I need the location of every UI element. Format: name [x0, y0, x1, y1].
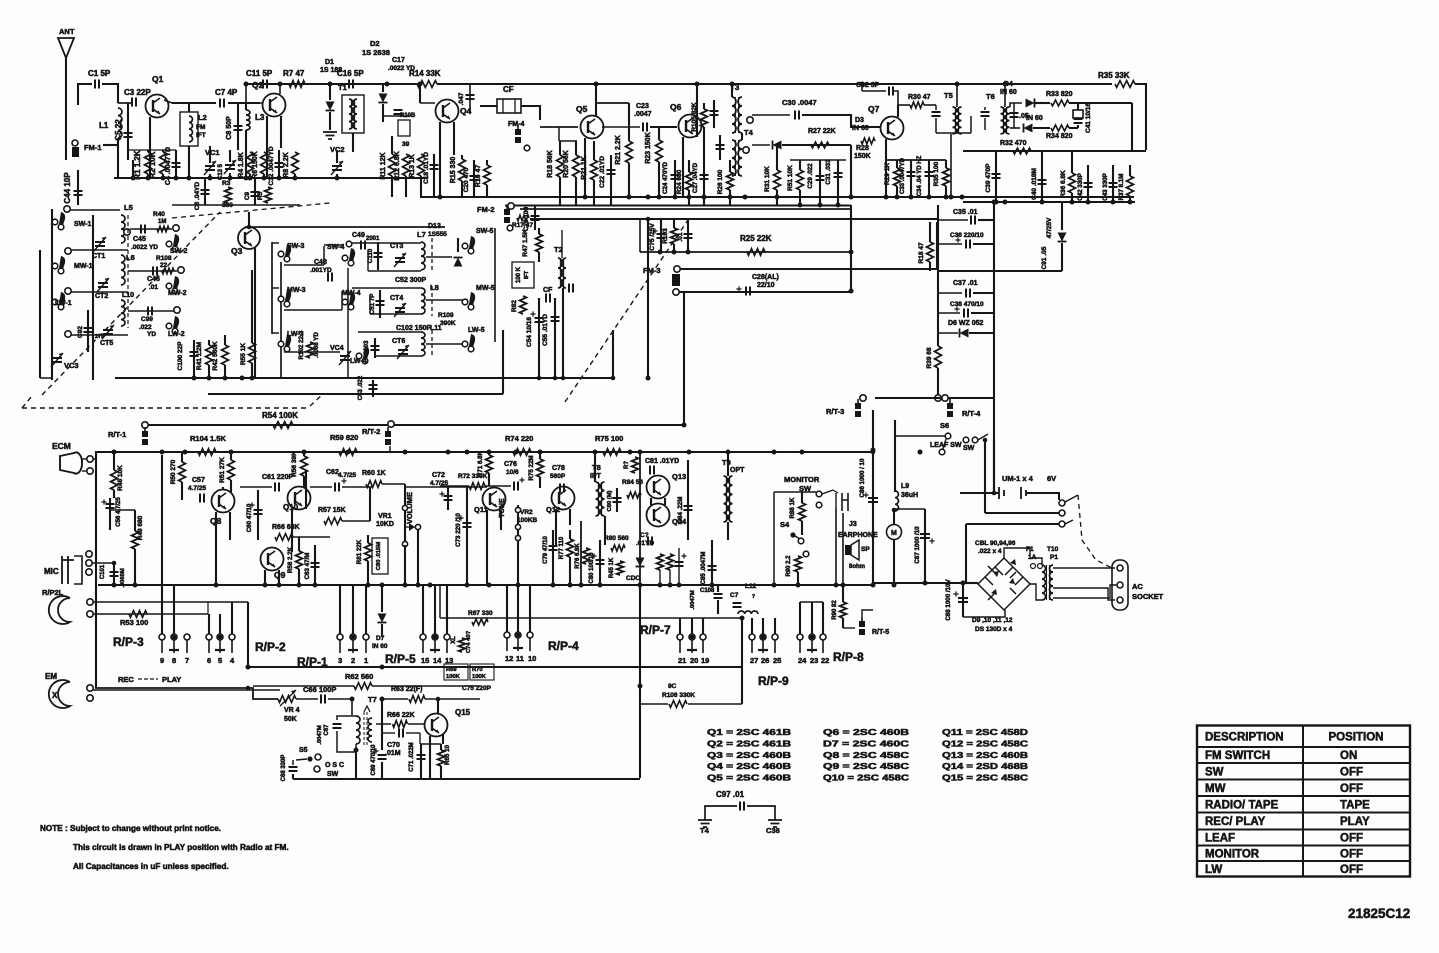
svg-text:C70: C70	[387, 742, 400, 749]
svg-text:C34 .04 YD HZ: C34 .04 YD HZ	[917, 155, 923, 196]
svg-text:22: 22	[160, 262, 168, 269]
capacitor C33 .0047YD	[910, 160, 912, 197]
capacitor C?	[616, 488, 618, 512]
transistor Q1	[146, 95, 169, 118]
capacitor C41 10/16	[1077, 103, 1079, 110]
svg-text:Q5 = 2SC 460B: Q5 = 2SC 460B	[707, 773, 791, 783]
capacitor C69 470/10	[378, 755, 387, 759]
svg-text:EM: EM	[45, 672, 57, 681]
svg-text:FM-4: FM-4	[508, 121, 524, 128]
wire	[872, 410, 874, 585]
svg-text:R24 680: R24 680	[676, 169, 683, 194]
svg-text:Q10: Q10	[283, 503, 299, 512]
svg-text:R/P-4: R/P-4	[548, 639, 579, 653]
svg-text:9C: 9C	[668, 683, 677, 690]
svg-text:IN 60: IN 60	[1000, 89, 1017, 96]
capacitor C34 .04YD	[928, 160, 930, 197]
svg-text:R102 22-3: R102 22-3	[298, 330, 305, 359]
wire top bus	[850, 83, 1112, 85]
svg-text:VR1: VR1	[378, 513, 392, 520]
svg-text:SW-2: SW-2	[170, 248, 187, 255]
resistor R76 6.8K	[583, 548, 590, 564]
wire	[520, 208, 851, 210]
svg-text:SW-1: SW-1	[74, 221, 91, 228]
jack R/T-4 top	[935, 395, 941, 401]
svg-text:C48: C48	[314, 259, 327, 266]
svg-text:C69 470/10: C69 470/10	[371, 744, 377, 776]
resistor R15 330	[459, 159, 466, 181]
svg-text:C32 3P: C32 3P	[856, 82, 880, 89]
svg-text:25: 25	[773, 656, 781, 665]
wire	[51, 209, 53, 380]
capacitor C85 .0047M	[711, 540, 713, 585]
svg-text:M: M	[891, 530, 897, 537]
svg-text:MW-1: MW-1	[74, 263, 93, 270]
svg-text:R82: R82	[511, 300, 518, 312]
svg-text:D1: D1	[325, 59, 334, 66]
wire	[1131, 103, 1133, 151]
svg-text:R48 10K: R48 10K	[117, 465, 124, 491]
wire	[530, 218, 937, 220]
svg-text:C74 40?: C74 40?	[466, 630, 472, 653]
wire output top	[630, 451, 873, 453]
capacitor C80 .015M	[372, 538, 388, 574]
svg-text:ECM: ECM	[52, 441, 71, 451]
svg-text:R18 47: R18 47	[918, 242, 925, 263]
svg-text:SP: SP	[861, 546, 870, 553]
resistor R18b 47	[927, 242, 934, 262]
svg-text:C68 330P: C68 330P	[281, 755, 287, 782]
svg-text:D7: D7	[376, 635, 385, 642]
capacitor C43 330P	[1112, 165, 1114, 202]
svg-text:LEAF SW: LEAF SW	[930, 442, 962, 449]
wire	[639, 585, 641, 778]
switch contacts	[1059, 500, 1065, 506]
svg-text:R62 560: R62 560	[345, 672, 373, 681]
wire to socket	[1053, 567, 1115, 569]
svg-text:REC/ PLAY: REC/ PLAY	[1205, 816, 1266, 828]
jack R/T-4	[942, 395, 948, 401]
wire	[963, 582, 978, 584]
svg-text:50K: 50K	[284, 716, 297, 723]
svg-text:.01: .01	[149, 284, 158, 291]
resistor R39 68	[935, 346, 942, 368]
svg-text:VOLUME: VOLUME	[405, 492, 414, 524]
wire IF bottom bus	[420, 196, 1134, 198]
wire	[65, 140, 67, 160]
svg-text:D2: D2	[370, 39, 380, 48]
resistor R49 680	[132, 531, 139, 549]
switch SW-4	[342, 255, 348, 261]
resistor R5 6.8K	[265, 187, 272, 203]
svg-text:.0047: .0047	[634, 111, 652, 118]
svg-text:.047: .047	[458, 92, 465, 105]
resistor R12 6.8K	[403, 154, 410, 176]
svg-text:1: 1	[364, 656, 368, 665]
capacitor C40 .018M	[1041, 151, 1043, 202]
wire	[355, 752, 357, 779]
wire bus	[248, 666, 742, 668]
svg-text:C29 .022: C29 .022	[807, 163, 814, 189]
capacitor .05	[1013, 103, 1015, 128]
inductor L3	[246, 110, 250, 130]
resistor R4 1.8K	[247, 152, 254, 174]
wire	[70, 334, 128, 336]
capacitor .01	[687, 219, 689, 252]
switch SW-2	[166, 241, 172, 247]
wire bank3 rails	[358, 331, 421, 333]
capacitor C60 47/10	[257, 490, 259, 540]
svg-text:R1 1.2K: R1 1.2K	[133, 150, 142, 180]
svg-text:C4 .0047YD: C4 .0047YD	[165, 147, 172, 185]
svg-text:.0068 YD: .0068 YD	[313, 332, 320, 358]
resistor R55 1K	[249, 343, 256, 363]
svg-text:C16 5P: C16 5P	[337, 69, 364, 78]
resistor R90 82	[840, 602, 847, 618]
svg-text:C80 (M): C80 (M)	[607, 490, 613, 511]
capacitor C22 .01YD	[610, 155, 612, 205]
resistor R13 1K	[418, 154, 425, 176]
resistor R35b 100	[943, 168, 950, 186]
capacitor C73 220/10	[466, 487, 468, 585]
svg-text:X: X	[52, 691, 58, 700]
svg-text:R2 10K: R2 10K	[148, 151, 157, 178]
diode CDC	[636, 558, 645, 567]
wire FM bottom bus	[114, 177, 428, 179]
svg-text:100 K: 100 K	[516, 266, 522, 283]
wire	[347, 268, 349, 378]
wire	[963, 150, 1146, 152]
wire R54 bus	[142, 422, 148, 428]
capacitor C25 100	[534, 205, 536, 230]
svg-text:R49 680: R49 680	[137, 515, 144, 540]
svg-text:FM SWITCH: FM SWITCH	[1205, 750, 1270, 762]
svg-text:R/P-3: R/P-3	[113, 635, 144, 649]
svg-text:R45 1K: R45 1K	[609, 557, 615, 578]
resistor R2 10K	[145, 152, 152, 174]
svg-text:R37 8.1M: R37 8.1M	[1118, 174, 1125, 201]
svg-text:Q6 = 2SC 460B: Q6 = 2SC 460B	[823, 727, 909, 737]
svg-text:R77 110: R77 110	[559, 536, 565, 559]
resistor R21 1K	[591, 160, 598, 180]
wire	[207, 602, 209, 614]
svg-text:T7: T7	[368, 695, 377, 704]
svg-text:LW-4: LW-4	[350, 358, 367, 365]
svg-text:C42 330P: C42 330P	[1077, 173, 1084, 201]
capacitor C80 100/10	[599, 540, 601, 585]
wire power bus	[963, 201, 1135, 203]
svg-text:Q6: Q6	[670, 102, 682, 112]
svg-text:O S C: O S C	[325, 762, 344, 769]
svg-text:Q11 = 2SC 458D: Q11 = 2SC 458D	[942, 727, 1028, 737]
svg-text:C8 50P: C8 50P	[226, 116, 233, 140]
svg-text:22: 22	[821, 656, 829, 665]
resistor R29 1K	[894, 168, 901, 186]
svg-text:C6 .04YD: C6 .04YD	[194, 182, 201, 210]
capacitor C31 .033	[837, 160, 839, 205]
svg-text:R21 1K: R21 1K	[581, 156, 588, 180]
svg-text:R3: R3	[222, 180, 231, 187]
svg-text:OFF: OFF	[1340, 783, 1363, 795]
svg-text:T10: T10	[1047, 546, 1059, 553]
svg-text:LW: LW	[1205, 864, 1222, 876]
switch MW-4	[342, 299, 348, 305]
svg-text:OPT: OPT	[730, 467, 745, 474]
svg-text:Q7: Q7	[868, 104, 880, 114]
svg-text:R67 330: R67 330	[468, 610, 493, 617]
svg-text:R29 1K: R29 1K	[884, 163, 891, 185]
svg-text:C60 47/10: C60 47/10	[246, 503, 253, 532]
svg-text:T6: T6	[986, 92, 995, 101]
svg-text:TONE: TONE	[499, 498, 506, 518]
svg-text:C41 10/16: C41 10/16	[1085, 103, 1092, 133]
resistor R47 1.5K	[536, 234, 543, 252]
svg-text:8ohm: 8ohm	[849, 564, 865, 570]
capacitor C84 .22M	[687, 460, 689, 540]
svg-text:MW-4: MW-4	[342, 290, 361, 297]
svg-text:390K: 390K	[440, 320, 456, 327]
resistor R11 12K	[389, 154, 396, 176]
svg-text:FM-2: FM-2	[477, 205, 495, 214]
svg-text:4.7/25: 4.7/25	[338, 472, 356, 479]
wire	[938, 270, 1062, 272]
switch LW-2	[166, 323, 172, 329]
svg-text:IN 60: IN 60	[372, 643, 388, 650]
capacitor C54 10/16	[538, 298, 540, 378]
svg-text:R/T-3: R/T-3	[826, 407, 844, 416]
svg-text:R?: R?	[624, 461, 630, 469]
transistor Q11	[483, 488, 506, 511]
resistor R51 27K	[228, 460, 235, 480]
resistor R23 150K	[656, 140, 663, 162]
svg-text:CDC: CDC	[626, 575, 640, 582]
resistor R103	[671, 228, 678, 244]
resistor R3 330	[225, 187, 232, 203]
svg-text:C7: C7	[730, 592, 739, 599]
wire	[247, 602, 249, 667]
capacitor C39 470P	[995, 151, 997, 202]
svg-text:R12 6.8K: R12 6.8K	[394, 151, 401, 181]
svg-text:R57 15K: R57 15K	[318, 507, 346, 514]
pins 27 26 25	[751, 618, 753, 634]
wire	[381, 699, 383, 750]
svg-text:R56 39K: R56 39K	[291, 451, 298, 477]
capacitor C1 5P	[78, 84, 92, 105]
svg-text:T4: T4	[744, 128, 754, 137]
capacitor C9 .04YD	[254, 178, 256, 205]
svg-text:R36 6.8K: R36 6.8K	[1060, 170, 1067, 198]
resistor R16 47	[484, 165, 491, 185]
svg-text:T1: T1	[338, 83, 347, 92]
wire	[280, 262, 282, 378]
svg-text:Q11: Q11	[474, 505, 488, 514]
wire	[70, 291, 128, 293]
resistor R48 10K	[111, 470, 118, 490]
wire	[679, 291, 851, 293]
svg-text:R105 82K: R105 82K	[691, 102, 698, 132]
transistor Q4	[436, 100, 459, 123]
capacitor C63 47/10	[314, 545, 316, 585]
svg-text:1S 2638: 1S 2638	[362, 48, 390, 57]
svg-text:5: 5	[218, 656, 222, 665]
wire	[1010, 103, 1022, 107]
svg-text:C7 4P: C7 4P	[215, 88, 238, 97]
svg-text:R60 1K: R60 1K	[362, 470, 386, 477]
svg-text:36uH: 36uH	[901, 492, 918, 499]
svg-text:C18 .01YD: C18 .01YD	[423, 152, 430, 184]
svg-text:R104 1.5K: R104 1.5K	[190, 434, 226, 443]
resistor R42 560K	[222, 345, 229, 365]
transistor Q9	[261, 548, 284, 571]
svg-text:SW: SW	[963, 445, 975, 452]
svg-text:150K: 150K	[854, 153, 871, 160]
svg-text:C101: C101	[100, 564, 106, 579]
svg-text:6V: 6V	[1047, 474, 1056, 483]
svg-text:C9: C9	[244, 191, 251, 200]
wire	[873, 582, 975, 584]
resistor R34 820	[1051, 125, 1069, 131]
svg-text:S4: S4	[780, 520, 790, 529]
pins R/P-3 group 9 8 7	[161, 455, 163, 634]
jack R/T-5	[859, 621, 865, 627]
svg-text:CT1: CT1	[92, 253, 105, 260]
capacitor C53 .022YD	[372, 380, 374, 397]
svg-text:P1: P1	[1050, 554, 1058, 561]
svg-text:SW-5: SW-5	[476, 228, 493, 235]
svg-text:C46: C46	[147, 276, 160, 283]
svg-text:7: 7	[185, 656, 189, 665]
wire	[835, 508, 837, 585]
svg-text:SOCKET: SOCKET	[1132, 592, 1164, 601]
svg-text:R32 470: R32 470	[1000, 140, 1027, 147]
switch MW-3	[278, 296, 284, 302]
svg-text:Q4 = 2SC 460B: Q4 = 2SC 460B	[707, 761, 791, 771]
capacitor C46 .01	[128, 270, 177, 272]
box R100K	[512, 262, 534, 288]
capacitor C92	[87, 310, 89, 352]
wire	[440, 617, 742, 619]
wire tuner bus	[115, 377, 613, 379]
capacitor C4 .0047YD	[160, 152, 167, 174]
transistor Q10	[288, 487, 311, 510]
wire	[93, 689, 280, 691]
resistor R58 2.2K	[296, 551, 303, 569]
svg-text:T8: T8	[592, 463, 601, 472]
svg-text:C97 .01: C97 .01	[716, 790, 745, 799]
wire	[984, 440, 986, 513]
svg-text:R106 330K: R106 330K	[662, 692, 695, 699]
svg-text:R74 220: R74 220	[505, 434, 533, 443]
svg-text:AC: AC	[1132, 582, 1143, 591]
wire	[172, 204, 300, 206]
svg-text:REC: REC	[118, 675, 134, 684]
svg-text:24: 24	[798, 656, 807, 665]
svg-text:6: 6	[207, 656, 211, 665]
svg-text:R21 2.2K: R21 2.2K	[615, 135, 622, 165]
svg-text:UM-1 x 4: UM-1 x 4	[1002, 474, 1034, 483]
svg-text:LW-1: LW-1	[55, 300, 72, 307]
svg-text:R47 1.5K: R47 1.5K	[522, 229, 529, 257]
resistor R24 680	[686, 172, 693, 190]
svg-text:R81 22K: R81 22K	[356, 539, 363, 564]
resistor R45 1K	[617, 561, 624, 575]
inductor L2 FM IFT	[180, 112, 198, 146]
svg-text:?: ?	[752, 594, 755, 600]
svg-text:LW-2: LW-2	[168, 331, 185, 338]
svg-text:.0047M: .0047M	[690, 590, 696, 610]
svg-text:10/6: 10/6	[506, 469, 519, 476]
svg-text:R/P-9: R/P-9	[758, 674, 789, 688]
transistor Q13	[647, 476, 670, 499]
wire	[39, 250, 41, 378]
svg-text:C1 5P: C1 5P	[88, 69, 111, 78]
trimmer C15	[225, 165, 235, 169]
svg-text:CT2: CT2	[95, 293, 108, 300]
dashed linkage	[1078, 495, 1112, 568]
pins R/P-8 24 23 22	[799, 602, 801, 634]
wire bottom bus	[98, 584, 873, 586]
svg-text:VC4: VC4	[330, 345, 344, 352]
svg-text:14: 14	[433, 656, 442, 665]
capacitor C68 330P	[292, 760, 294, 765]
svg-text:R31 10K: R31 10K	[764, 166, 771, 192]
capacitor T5 tune	[935, 105, 937, 110]
svg-text:L1: L1	[99, 121, 109, 130]
svg-text:RADIO/ TAPE: RADIO/ TAPE	[1205, 799, 1279, 811]
wire	[505, 204, 851, 206]
resistor R10B 39	[398, 120, 410, 136]
svg-text:C49: C49	[352, 232, 365, 239]
svg-text:21: 21	[678, 656, 686, 665]
svg-text:VC3: VC3	[64, 361, 79, 370]
svg-text:MONITOR: MONITOR	[784, 475, 820, 484]
transistor Q12	[552, 487, 575, 510]
svg-text:Q12: Q12	[546, 505, 560, 514]
switch LW-5	[462, 341, 468, 347]
capacitor C7 4P	[172, 102, 216, 104]
capacitor C79 47/10	[552, 530, 554, 585]
svg-text:.022: .022	[139, 324, 152, 331]
svg-text:R51 10K: R51 10K	[787, 165, 794, 191]
svg-text:MW-5: MW-5	[476, 285, 495, 292]
speaker SP	[845, 545, 851, 555]
capacitor C29 .022	[819, 160, 821, 205]
svg-text:C53 .022: C53 .022	[358, 375, 364, 400]
svg-text:23: 23	[810, 656, 818, 665]
switch SW-3	[278, 251, 284, 257]
svg-text:R75 100: R75 100	[595, 434, 623, 443]
capacitor C?	[719, 135, 721, 160]
svg-text:19: 19	[701, 656, 709, 665]
resistor R19 2.2K	[628, 103, 630, 141]
svg-text:MIC: MIC	[44, 567, 59, 576]
svg-text:R25 22K: R25 22K	[740, 234, 772, 243]
resistor R41 1.2M	[206, 345, 213, 365]
wire	[886, 159, 946, 161]
svg-text:YD: YD	[147, 331, 156, 338]
svg-text:R42 560K: R42 560K	[212, 341, 219, 371]
svg-text:NOTE : Subject to change w: NOTE : Subject to change without print n…	[40, 824, 221, 833]
variable capacitor VC3	[52, 358, 62, 362]
transistor Q3	[238, 227, 260, 249]
svg-text:R63 22(F): R63 22(F)	[391, 686, 423, 693]
svg-text:R15 330: R15 330	[450, 157, 457, 184]
svg-text:OFF: OFF	[1340, 766, 1363, 778]
svg-text:.0022 YD: .0022 YD	[131, 244, 158, 251]
switch LW-1	[52, 299, 58, 305]
svg-text:R/P-5: R/P-5	[385, 652, 416, 666]
pins R/P-1 3 2 1	[339, 585, 341, 634]
